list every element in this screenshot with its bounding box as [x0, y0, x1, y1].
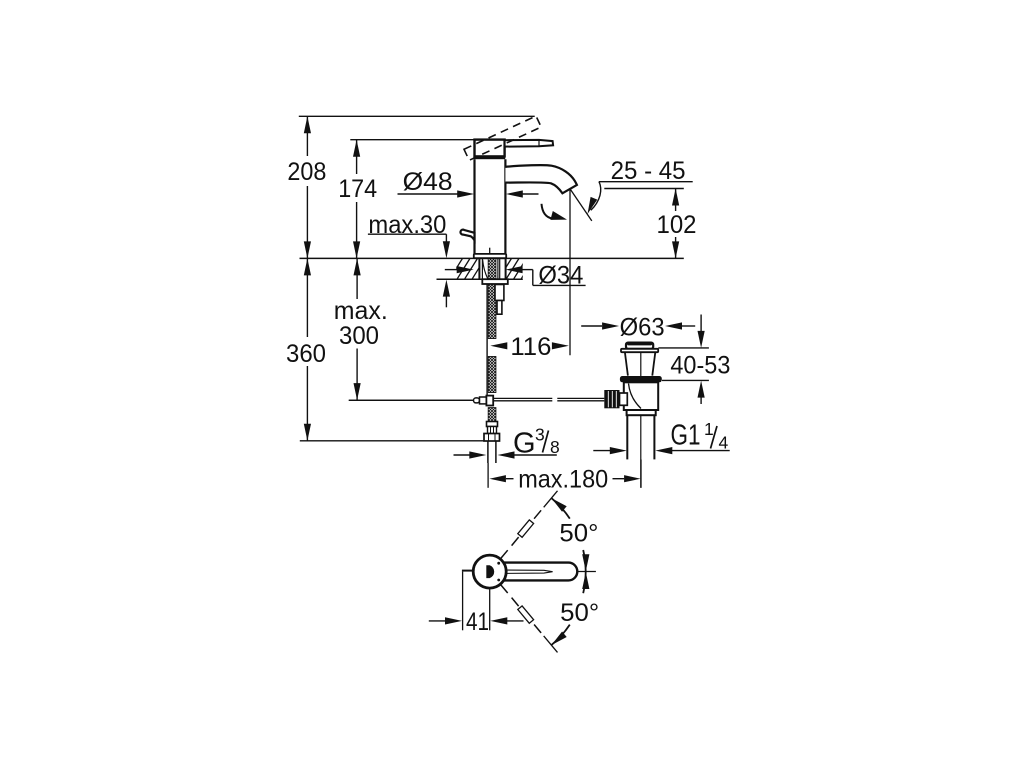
waste knob connector — [620, 393, 628, 405]
waste body inner curve — [629, 384, 642, 409]
lever dashed raised position — [464, 116, 541, 160]
counter hatching — [450, 258, 463, 279]
svg-text:Ø63: Ø63 — [620, 313, 665, 341]
waste top flange — [621, 349, 658, 352]
Ø34 leader step — [532, 270, 534, 286]
svg-text:41: 41 — [466, 608, 489, 636]
25-45 underline — [599, 181, 693, 183]
pop-up rod vertical — [486, 284, 488, 396]
extension line 174 level — [350, 139, 474, 141]
dimension 174 line — [356, 140, 358, 174]
dimension 40-53 — [700, 315, 702, 332]
max.30 lower arrow — [443, 280, 450, 297]
41 left extension — [462, 572, 464, 631]
upper dashed lever pill — [518, 520, 534, 537]
waste gasket band — [620, 376, 662, 382]
flexible hose braided lower — [488, 408, 496, 422]
dimension 41 — [429, 620, 446, 622]
svg-text:max.: max. — [334, 297, 388, 325]
lower 50deg dashed lever direction — [501, 585, 508, 593]
top view left stub — [462, 570, 474, 572]
faucet cartridge housing — [475, 140, 505, 157]
rod clevis — [474, 398, 480, 403]
flexible hose braided middle — [488, 357, 496, 393]
40-53 lower extension — [662, 379, 709, 381]
waste bottom plate — [627, 410, 656, 415]
rod guide block upper — [495, 285, 504, 301]
waste plug cap — [626, 343, 653, 349]
svg-text:3: 3 — [535, 425, 545, 445]
waste lever knob — [604, 390, 619, 408]
svg-text:1: 1 — [704, 419, 714, 439]
dimension max.300 line — [356, 258, 358, 299]
Ø48 arrow left — [398, 193, 459, 195]
top view axis line — [578, 571, 596, 573]
svg-text:360: 360 — [286, 340, 326, 368]
dimension 102 line — [675, 189, 677, 212]
top view lever stadium — [478, 563, 577, 581]
faucet body right edge — [504, 159, 506, 254]
dimension G3/8 — [454, 454, 471, 456]
dimension Ø63 — [581, 325, 602, 327]
upper 50deg dashed lever direction — [501, 550, 508, 558]
top view lever slot — [506, 570, 553, 573]
waste neck — [625, 352, 628, 375]
svg-text:Ø34: Ø34 — [538, 262, 583, 290]
extension line max.300 bottom — [349, 399, 474, 401]
threaded shank — [478, 258, 480, 279]
25-45 leader curve — [591, 182, 601, 211]
faucet centerline tick — [489, 248, 491, 259]
dimension 116 — [490, 342, 507, 349]
extension line top (208 level) — [299, 115, 535, 117]
max.180 right extension — [640, 460, 642, 488]
shank inner lines — [497, 258, 499, 279]
svg-text:102: 102 — [657, 211, 697, 239]
upper 50deg arc — [551, 498, 569, 518]
41 center extension — [489, 590, 491, 631]
svg-text:300: 300 — [339, 322, 379, 350]
svg-text:50°: 50° — [559, 519, 598, 547]
top view dots — [497, 562, 500, 565]
svg-text:40-53: 40-53 — [670, 351, 730, 379]
faucet base plate — [474, 254, 506, 258]
extension line 360 bottom — [300, 440, 485, 442]
Ø34 underline — [533, 284, 586, 286]
horizontal rod segment 1 — [493, 397, 552, 399]
hose end collar — [487, 422, 498, 427]
connection tube — [487, 441, 489, 463]
svg-text:50°: 50° — [560, 599, 599, 627]
spout — [505, 165, 577, 193]
waste body — [624, 382, 658, 410]
Ø48 arrow right — [506, 190, 523, 197]
svg-text:8: 8 — [550, 437, 560, 457]
svg-text:208: 208 — [287, 158, 326, 186]
rod extension line left — [349, 399, 474, 401]
counter top line — [300, 257, 684, 259]
waste tailpipe — [626, 415, 628, 459]
hose end nut G3/8 — [484, 434, 500, 442]
dimension 360 line — [306, 258, 308, 337]
extension line 102 top — [604, 188, 684, 190]
counter bottom line — [437, 278, 523, 280]
svg-text:116: 116 — [510, 333, 551, 361]
dimension 208 line — [306, 116, 308, 156]
extension line spout to counter — [569, 189, 571, 355]
svg-text:Ø48: Ø48 — [403, 168, 453, 196]
top view faucet circle — [473, 555, 506, 588]
rod guide block lower — [497, 301, 502, 315]
lower 50deg arc — [583, 572, 586, 594]
max.30 upper arrow — [445, 234, 447, 241]
svg-text:174: 174 — [338, 175, 377, 203]
dimension G1 1/4 — [593, 450, 610, 452]
lever solid position — [505, 140, 553, 147]
top view cartridge D mark — [486, 565, 494, 578]
max.180 left extension — [487, 463, 489, 488]
dimension max.180 — [489, 475, 506, 482]
svg-text:25 - 45: 25 - 45 — [611, 157, 686, 185]
svg-text:G1: G1 — [671, 420, 701, 452]
flow curved arrow — [542, 204, 553, 219]
horizontal rod segment 2 — [557, 397, 604, 399]
svg-text:4: 4 — [719, 433, 729, 453]
svg-text:max.180: max.180 — [518, 465, 608, 493]
faucet body left edge — [473, 159, 475, 254]
lower dashed lever pill — [518, 606, 534, 623]
waste centerline — [640, 352, 642, 488]
dimension Ø34 arrows — [445, 269, 459, 271]
pop-up pull knob — [460, 230, 474, 241]
water stream line — [570, 189, 592, 221]
flexible hose braided upper — [488, 258, 496, 338]
mounting nut — [482, 279, 508, 284]
40-53 upper extension — [658, 347, 709, 349]
hose end ribbed fitting — [488, 427, 497, 434]
max.30 underline — [368, 233, 447, 235]
